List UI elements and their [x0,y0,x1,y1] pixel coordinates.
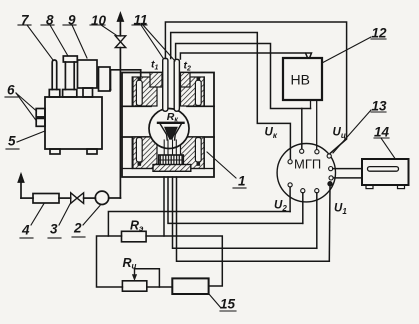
bolt slots [136,77,201,166]
svg-text:13: 13 [372,99,388,114]
wire W1 [165,22,346,153]
leader line 10 [101,25,116,35]
svg-text:НВ: НВ [291,72,310,88]
block 1 middle band lines [122,106,214,137]
wire W3 [176,44,311,109]
underline 4 [20,237,33,239]
underline 14 [374,137,389,139]
side box on unit 5 [99,67,111,91]
resistor Ri (rheostat) [122,281,146,291]
underline 2 [72,236,85,238]
wires MGP to recorder 14 [333,169,362,178]
riser to bus2 [302,193,304,224]
leader line 9 [72,25,87,58]
gas manifold wire [111,70,141,90]
wire to bus4 [177,177,330,261]
wire to Rb bus [163,177,165,236]
svg-text:15: 15 [220,297,236,312]
wire W4 [180,53,311,59]
svg-text:3: 3 [50,222,58,237]
MGP terminals [288,149,333,193]
NV box 12 [283,58,322,100]
leader line 1 [207,152,236,178]
svg-text:1: 1 [238,174,246,189]
thermocouple lead wires to top buses [165,22,346,158]
Rb left wire and left loop [97,236,123,287]
riser U2 [289,187,291,212]
svg-text:10: 10 [91,13,107,28]
inlet arrow above valve 10 [118,14,123,36]
thermocouple tube t2 [174,59,179,111]
svg-text:2: 2 [73,221,82,236]
leader line 3 [59,204,70,225]
leader line 6b [16,93,37,121]
box 15 [172,278,208,294]
wire W3 drop to terminal [301,109,303,149]
resistor Rb [122,231,147,242]
Rb right wire to down corner [146,236,222,286]
wires funnel to grid [164,140,176,155]
wire to bus2 [168,177,303,223]
riser U1 [328,186,331,261]
svg-text:8: 8 [46,13,54,28]
cylinder 8 [63,56,78,97]
svg-text:5: 5 [8,134,16,149]
grid block [159,155,184,165]
svg-text:11: 11 [134,13,148,28]
NV legs to MGP [311,100,317,149]
wire bubbler 2 to gas pipe [109,197,121,199]
underline 7 [18,24,31,26]
wire inlet to restrictor 4 [21,197,33,199]
wire to bus3 [173,177,317,248]
leader line 14 [381,138,395,159]
underline 12 [371,38,386,40]
svg-text:6: 6 [7,83,15,98]
underline 9 [63,24,76,26]
underline 8 [41,24,54,26]
svg-text:4: 4 [21,223,30,238]
katharometer cell circle Rk [149,109,189,149]
wire valve 3 to bubbler 2 [84,197,96,199]
wire 4 to valve 3 [59,197,71,199]
underline 13 [371,111,386,113]
thermocouple tube t1 [163,58,168,111]
underline 15 [220,310,236,312]
wire W2 [171,33,291,159]
Ri right wire to box 15 [147,286,173,288]
gas pipe from valve 10 down [119,48,121,198]
leader line 11a [141,25,163,58]
svg-text:12: 12 [372,26,388,41]
leader line 12 [322,37,371,63]
riser to bus3 [316,193,318,249]
Ri wiper loop wire [135,269,160,287]
wire from side box [109,89,112,91]
leader line 11b [143,25,175,61]
cylinder 9 [78,60,98,97]
measuring block 1 outer body [122,73,214,178]
gas unit box 5 [45,97,102,154]
svg-text:МГП: МГП [294,157,321,172]
leader line 2 [83,206,100,226]
leader line 4 [31,204,44,226]
Ri wiper arrow [132,269,137,281]
svg-text:14: 14 [374,125,390,140]
underline 6 [5,96,18,98]
MGP converter circle 13 [277,144,335,202]
leader line 8 [50,25,68,56]
recorder box 14 [362,159,409,189]
block 1 top hatched band [133,77,204,106]
NV top lead [306,53,308,58]
svg-text:9: 9 [68,13,76,28]
underline 10 [90,24,105,26]
crucible cup inside cell [158,123,184,140]
block 1 top collars [150,73,190,88]
block 1 bottom hatched band [133,137,204,169]
block text labels [291,72,322,172]
leader line 5 [17,131,45,142]
bus1 to U2 terminal [108,212,290,237]
valve 10 [115,36,125,48]
bubbler 2 [95,191,108,204]
underline 3 [48,237,61,239]
underline 1 [233,187,246,189]
leader line 15 [209,294,221,308]
leader line 6a [16,93,37,111]
underline 5 [6,148,19,150]
cylinder 7 [49,60,60,97]
block signal wires down [164,177,329,261]
leader line 7 [27,25,53,60]
block 1 inner wall lines [122,77,214,169]
inlet arrow (bottom left) [18,175,23,199]
support plate [153,165,191,172]
tabs 6 [36,109,45,127]
leader line 13 [333,110,371,153]
valve 3 [71,193,84,204]
underline 11 [132,24,147,26]
restrictor 4 [33,194,59,204]
